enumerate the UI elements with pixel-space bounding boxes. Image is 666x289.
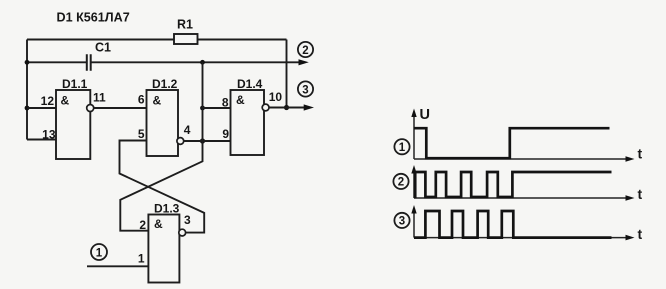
output bubble D1.4 pin 10 [262, 104, 269, 111]
svg-text:t: t [638, 186, 643, 202]
gate U D1.1 [56, 90, 90, 159]
wire left rail [26, 40, 28, 140]
svg-text:3: 3 [184, 213, 191, 227]
waveform label circle 1 [394, 139, 409, 154]
svg-text:D1.2: D1.2 [152, 77, 178, 91]
waveform trace 2 [414, 172, 612, 197]
wire pin 11 to pin 6 [94, 107, 147, 109]
junction mid vertical / pin 4-9 [200, 138, 205, 143]
svg-text:10: 10 [269, 90, 283, 104]
gate D1.3 [148, 215, 179, 283]
output bubble D1.1 pin 11 [87, 105, 94, 112]
waveform row 1 t axis [414, 158, 629, 160]
svg-text:2: 2 [398, 177, 404, 189]
arrow to terminal 2 [299, 59, 309, 65]
svg-text:3: 3 [399, 216, 405, 228]
svg-text:2: 2 [302, 45, 308, 57]
waveform trace 3 [414, 211, 612, 238]
svg-text:U: U [420, 107, 430, 123]
wire pin 8 [203, 107, 231, 109]
wire mid vertical with cross-coupling diagonal to pin 2 [120, 62, 202, 230]
svg-text:R1: R1 [177, 18, 193, 32]
junction left rail / C1 net [25, 60, 30, 65]
svg-text:&: & [153, 94, 162, 108]
wire C1 net to output 2 [27, 61, 301, 63]
svg-text:13: 13 [42, 128, 56, 142]
terminal circle 1 input [91, 244, 107, 260]
svg-text:D1.1: D1.1 [62, 77, 88, 91]
terminal circle 2 [298, 42, 313, 57]
svg-text:1: 1 [96, 247, 103, 259]
wire pin 1 input [87, 265, 148, 267]
svg-text:&: & [236, 93, 245, 107]
wire pin 13 [27, 139, 56, 141]
svg-text:t: t [638, 226, 643, 242]
svg-text:&: & [154, 217, 163, 231]
wire pin 5 net to D1.3 output bubble [120, 141, 205, 233]
svg-text:6: 6 [138, 93, 145, 107]
svg-text:D1.4: D1.4 [237, 77, 263, 91]
waveform label circle 3 [394, 213, 409, 228]
wire pin 10 to output 3 [269, 107, 306, 109]
svg-text:D1 К561ЛА7: D1 К561ЛА7 [57, 11, 130, 25]
svg-text:5: 5 [138, 127, 145, 141]
capacitor C1 [87, 54, 91, 71]
wire pin 12 [27, 107, 56, 109]
svg-text:3: 3 [302, 84, 308, 96]
wire top rail [27, 39, 287, 41]
waveform row 1 U axis [413, 112, 415, 159]
svg-text:1: 1 [399, 142, 406, 154]
svg-text:C1: C1 [95, 41, 111, 55]
arrow to terminal 3 [304, 104, 314, 110]
terminal circle 3 [298, 81, 313, 96]
wire right vertical from R1 rail down to pin10 output [286, 40, 288, 108]
waveform trace 1 [414, 128, 610, 158]
waveform label circle 2 [393, 174, 408, 189]
wire pin 4 to pin 9 [184, 140, 231, 142]
waveform row 2 axis [413, 169, 415, 199]
gate D1.2 [147, 90, 179, 156]
svg-text:t: t [638, 146, 643, 162]
svg-text:1: 1 [138, 252, 145, 266]
junction left rail / pin 12 [25, 106, 30, 111]
svg-text:11: 11 [93, 91, 106, 105]
svg-text:12: 12 [41, 94, 55, 108]
svg-text:4: 4 [184, 123, 191, 137]
svg-text:D1.3: D1.3 [154, 202, 180, 216]
output bubble D1.2 pin 4 [177, 138, 184, 145]
gate D1.4 [231, 90, 265, 155]
junction mid vertical / pin 8 [200, 106, 205, 111]
output bubble D1.3 pin 3 [179, 229, 186, 236]
junction C1 net / mid vertical [200, 60, 205, 65]
svg-text:9: 9 [222, 127, 229, 141]
waveform row 3 axis [413, 209, 415, 238]
junction right vertical / pin 10 [284, 105, 289, 110]
svg-text:&: & [61, 94, 70, 108]
resistor R1 [174, 34, 198, 44]
svg-text:2: 2 [139, 218, 146, 232]
